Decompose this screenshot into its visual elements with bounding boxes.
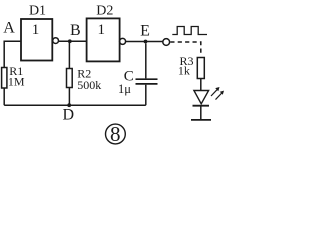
bottom rail wire — [4, 104, 146, 106]
ground — [191, 119, 211, 121]
svg-text:500k: 500k — [77, 78, 101, 92]
svg-text:8: 8 — [110, 122, 121, 146]
wire D2 output to terminal — [126, 41, 163, 43]
LED triangle — [194, 91, 209, 104]
wire R2 to rail — [68, 88, 70, 106]
resistor R1 — [2, 68, 7, 89]
output terminal circle — [163, 39, 170, 46]
figure number circle — [106, 124, 126, 144]
dashed wire to R3 — [170, 42, 201, 54]
node E — [144, 40, 148, 44]
LED lead to ground — [200, 106, 202, 120]
svg-text:E: E — [140, 22, 150, 39]
svg-text:D1: D1 — [29, 4, 46, 19]
wire R3 to LED — [200, 79, 202, 91]
capacitor C plates — [136, 79, 158, 84]
wire R1 to rail — [3, 88, 5, 105]
square wave symbol — [172, 27, 207, 35]
svg-text:A: A — [3, 19, 15, 36]
wire A to R1 — [4, 41, 21, 67]
capacitor C top lead — [145, 43, 147, 78]
resistor R2 — [67, 69, 73, 88]
node D — [67, 103, 71, 107]
D2 output bubble — [120, 38, 126, 44]
gate D1 — [21, 19, 52, 61]
svg-text:B: B — [70, 22, 81, 39]
svg-text:1M: 1M — [8, 74, 25, 88]
svg-text:1: 1 — [97, 22, 105, 38]
resistor R3 — [197, 58, 204, 79]
svg-text:1μ: 1μ — [118, 82, 131, 96]
svg-text:D2: D2 — [96, 3, 113, 18]
D1 output bubble — [53, 38, 59, 44]
wire B down to R2 — [68, 41, 70, 68]
gate D2 — [87, 18, 120, 61]
light arrow 1 — [211, 87, 220, 96]
light arrow 2 — [216, 91, 225, 100]
svg-text:D: D — [63, 106, 75, 123]
wire D1 output to D2 input — [59, 40, 87, 42]
node B — [68, 39, 72, 43]
svg-text:1: 1 — [32, 22, 40, 38]
svg-text:1k: 1k — [178, 63, 190, 77]
capacitor C bottom lead — [145, 85, 147, 106]
LED cathode bar — [193, 105, 210, 107]
